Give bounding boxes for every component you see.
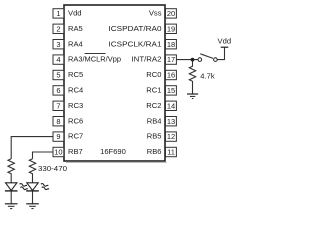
svg-text:RB5: RB5 — [147, 132, 162, 141]
svg-text:1: 1 — [56, 9, 60, 18]
svg-text:11: 11 — [167, 148, 175, 157]
svg-text:RC1: RC1 — [146, 86, 161, 95]
svg-text:8: 8 — [56, 117, 60, 126]
svg-text:2: 2 — [56, 24, 60, 33]
svg-text:6: 6 — [56, 86, 60, 95]
svg-text:RC3: RC3 — [68, 101, 83, 110]
svg-text:15: 15 — [167, 86, 175, 95]
svg-text:12: 12 — [167, 132, 175, 141]
svg-text:19: 19 — [167, 24, 175, 33]
svg-text:Vdd: Vdd — [68, 9, 82, 18]
svg-text:RA3/MCLR/Vpp: RA3/MCLR/Vpp — [68, 55, 121, 64]
svg-text:RB6: RB6 — [147, 147, 162, 156]
svg-text:16: 16 — [167, 71, 175, 80]
svg-text:5: 5 — [56, 71, 60, 80]
svg-text:RB7: RB7 — [68, 147, 83, 156]
svg-text:3: 3 — [56, 40, 60, 49]
svg-text:INT/RA2: INT/RA2 — [132, 55, 162, 64]
svg-text:RC6: RC6 — [68, 116, 83, 125]
svg-text:330-470: 330-470 — [38, 164, 67, 173]
svg-text:18: 18 — [167, 40, 175, 49]
svg-text:RC5: RC5 — [68, 70, 83, 79]
svg-text:RC4: RC4 — [68, 86, 83, 95]
svg-text:20: 20 — [167, 9, 175, 18]
svg-text:ICSPCLK/RA1: ICSPCLK/RA1 — [109, 39, 162, 48]
svg-text:17: 17 — [167, 55, 175, 64]
svg-text:RC7: RC7 — [68, 132, 83, 141]
svg-text:13: 13 — [167, 117, 175, 126]
svg-text:Vss: Vss — [149, 9, 162, 18]
svg-text:10: 10 — [54, 148, 62, 157]
svg-text:14: 14 — [167, 101, 175, 110]
svg-text:RC0: RC0 — [146, 70, 161, 79]
svg-text:RB4: RB4 — [147, 116, 162, 125]
svg-text:Vdd: Vdd — [218, 37, 232, 46]
svg-text:ICSPDAT/RA0: ICSPDAT/RA0 — [109, 24, 162, 33]
svg-text:16F690: 16F690 — [100, 147, 126, 156]
svg-text:7: 7 — [56, 101, 60, 110]
svg-text:9: 9 — [56, 132, 60, 141]
svg-text:RA4: RA4 — [68, 39, 83, 48]
svg-text:RA5: RA5 — [68, 24, 83, 33]
svg-text:4: 4 — [56, 55, 60, 64]
svg-text:4.7k: 4.7k — [200, 71, 215, 80]
svg-text:RC2: RC2 — [146, 101, 161, 110]
